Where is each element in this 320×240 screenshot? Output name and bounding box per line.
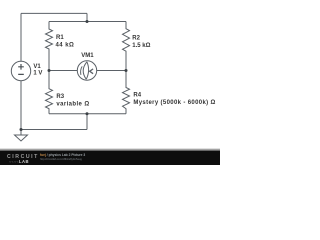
svg-text:variable Ω: variable Ω — [56, 102, 89, 108]
svg-text:R1: R1 — [56, 35, 64, 41]
svg-text:1 V: 1 V — [33, 71, 42, 77]
svg-text:1.5 kΩ: 1.5 kΩ — [132, 43, 150, 49]
svg-text:VM1: VM1 — [81, 53, 94, 59]
svg-text:R3: R3 — [56, 94, 64, 100]
svg-text:44 kΩ: 44 kΩ — [56, 42, 75, 48]
svg-text:R2: R2 — [132, 36, 140, 42]
svg-text:R4: R4 — [133, 92, 141, 98]
svg-text:V1: V1 — [33, 64, 41, 70]
svg-text:Mystery (5000k - 6000k) Ω: Mystery (5000k - 6000k) Ω — [133, 100, 215, 106]
